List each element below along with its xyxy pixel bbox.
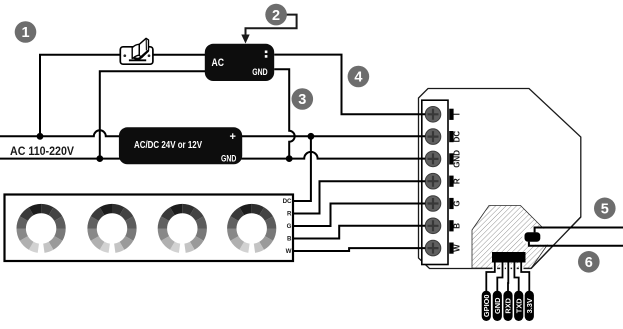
svg-text:GPIO0: GPIO0 <box>482 295 491 318</box>
wire: strip B to terminal B <box>293 226 425 239</box>
wire: adapter out to terminal I <box>274 55 425 115</box>
clamp slot R <box>449 176 453 187</box>
reset button <box>525 232 541 242</box>
clamp slot W <box>449 243 453 254</box>
clamp slot GND <box>449 153 453 164</box>
junction dot GND/neutral <box>286 155 293 162</box>
svg-text:W: W <box>452 244 461 252</box>
callout number 3 <box>292 88 314 110</box>
programming header <box>492 252 526 263</box>
wire: DC+ rail down to strip DC <box>293 136 311 201</box>
callout number 4 <box>348 66 370 88</box>
svg-text:B: B <box>287 236 292 243</box>
svg-text:AC/DC 24V or 12V: AC/DC 24V or 12V <box>134 140 202 151</box>
svg-text:AC: AC <box>212 57 225 69</box>
clamp slot DC <box>449 131 453 142</box>
pin label RXD <box>503 291 512 321</box>
wire 5 to button <box>535 228 623 233</box>
AC/DC converter box <box>119 127 242 164</box>
device edge redraw <box>531 217 581 269</box>
terminal block <box>422 100 448 264</box>
LED ring 3 <box>158 204 207 253</box>
upper mains rail (L) <box>0 130 425 136</box>
svg-text:B: B <box>452 223 461 229</box>
svg-text:I: I <box>452 113 461 115</box>
wire: strip R to terminal R <box>293 181 425 213</box>
programming pin wire GND <box>497 262 502 291</box>
clamp slot B <box>449 220 453 231</box>
svg-text:+: + <box>230 131 236 143</box>
svg-text:AC 110-220V: AC 110-220V <box>10 146 74 158</box>
wall switch <box>120 38 153 64</box>
wire: adapter GND to neutral rail <box>274 69 295 158</box>
svg-text:6: 6 <box>585 255 593 271</box>
svg-text:GND: GND <box>221 153 236 164</box>
AC adapter box <box>205 44 274 81</box>
wire: live feed to switch <box>40 55 205 137</box>
programming pin wire TXD <box>514 262 518 291</box>
terminal screw R <box>425 173 441 189</box>
callout 2 pointer bracket <box>246 15 297 36</box>
wire channel white band <box>529 229 623 245</box>
svg-text:G: G <box>287 223 292 230</box>
junction dot live/switch <box>37 133 44 140</box>
pin label GND <box>493 291 502 321</box>
svg-text:4: 4 <box>354 70 362 86</box>
svg-text:3: 3 <box>298 92 306 108</box>
svg-text:TXD: TXD <box>514 298 523 313</box>
pin label GPIO0 <box>482 291 491 321</box>
svg-text:5: 5 <box>601 202 609 218</box>
programming pin wire GPIO0 <box>486 262 495 291</box>
svg-text:1: 1 <box>21 25 29 41</box>
svg-text:DC: DC <box>452 131 461 143</box>
Shelly RGBW2 device outline <box>419 89 581 269</box>
antenna hatch area <box>472 206 553 269</box>
LED ring 2 <box>87 204 136 253</box>
svg-text:W: W <box>286 248 292 255</box>
svg-text:R: R <box>287 211 292 218</box>
programming pin wire 3.3V <box>521 262 529 291</box>
svg-text:GND: GND <box>493 297 502 314</box>
svg-text:3.3V: 3.3V <box>525 298 534 313</box>
terminal screw DC <box>425 129 441 145</box>
wire 6 to button <box>529 242 623 246</box>
terminal screw W <box>425 240 441 256</box>
terminal screw GND <box>425 151 441 167</box>
LED strip <box>5 195 294 262</box>
button white margin <box>522 230 542 244</box>
svg-text:R: R <box>452 178 461 184</box>
junction dot DC+ <box>308 133 315 140</box>
terminal screw G <box>425 196 441 212</box>
clamp slot G <box>449 198 453 209</box>
svg-text:RXD: RXD <box>504 297 513 313</box>
callout number 6 <box>578 251 600 273</box>
terminal screw B <box>425 218 441 234</box>
callout number 1 <box>15 21 37 43</box>
lower mains rail (N) <box>0 152 425 159</box>
pin label 3.3V <box>525 291 534 321</box>
svg-text:G: G <box>452 200 461 206</box>
wire: neutral to AC adapter <box>100 71 205 158</box>
svg-text:2: 2 <box>272 8 280 24</box>
LED ring 1 <box>17 204 66 253</box>
svg-text:DC: DC <box>283 198 292 205</box>
LED ring 4 <box>227 204 276 253</box>
arrowhead into adapter <box>241 35 249 44</box>
callout number 2 <box>265 4 287 26</box>
terminal screw I <box>425 107 441 123</box>
junction dot neutral/adapter <box>96 155 103 162</box>
wire: strip G to terminal G <box>293 204 425 227</box>
programming pin wire RXD <box>506 262 511 291</box>
callout number 5 <box>594 198 616 220</box>
svg-text:GND: GND <box>252 66 267 77</box>
wire: strip W to terminal W <box>293 248 425 251</box>
clamp slot I <box>449 109 453 120</box>
pin label TXD <box>514 291 523 321</box>
svg-text:GND: GND <box>452 150 461 168</box>
